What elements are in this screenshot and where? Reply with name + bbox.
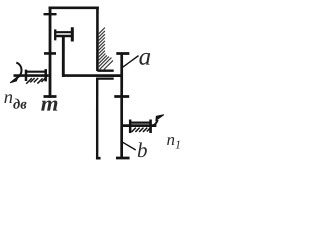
svg-text:а: а bbox=[139, 44, 152, 71]
svg-text:m: m bbox=[41, 91, 59, 115]
svg-text:b: b bbox=[137, 138, 148, 162]
svg-text:n1: n1 bbox=[167, 130, 182, 152]
svg-text:nдв: nдв bbox=[4, 88, 27, 113]
